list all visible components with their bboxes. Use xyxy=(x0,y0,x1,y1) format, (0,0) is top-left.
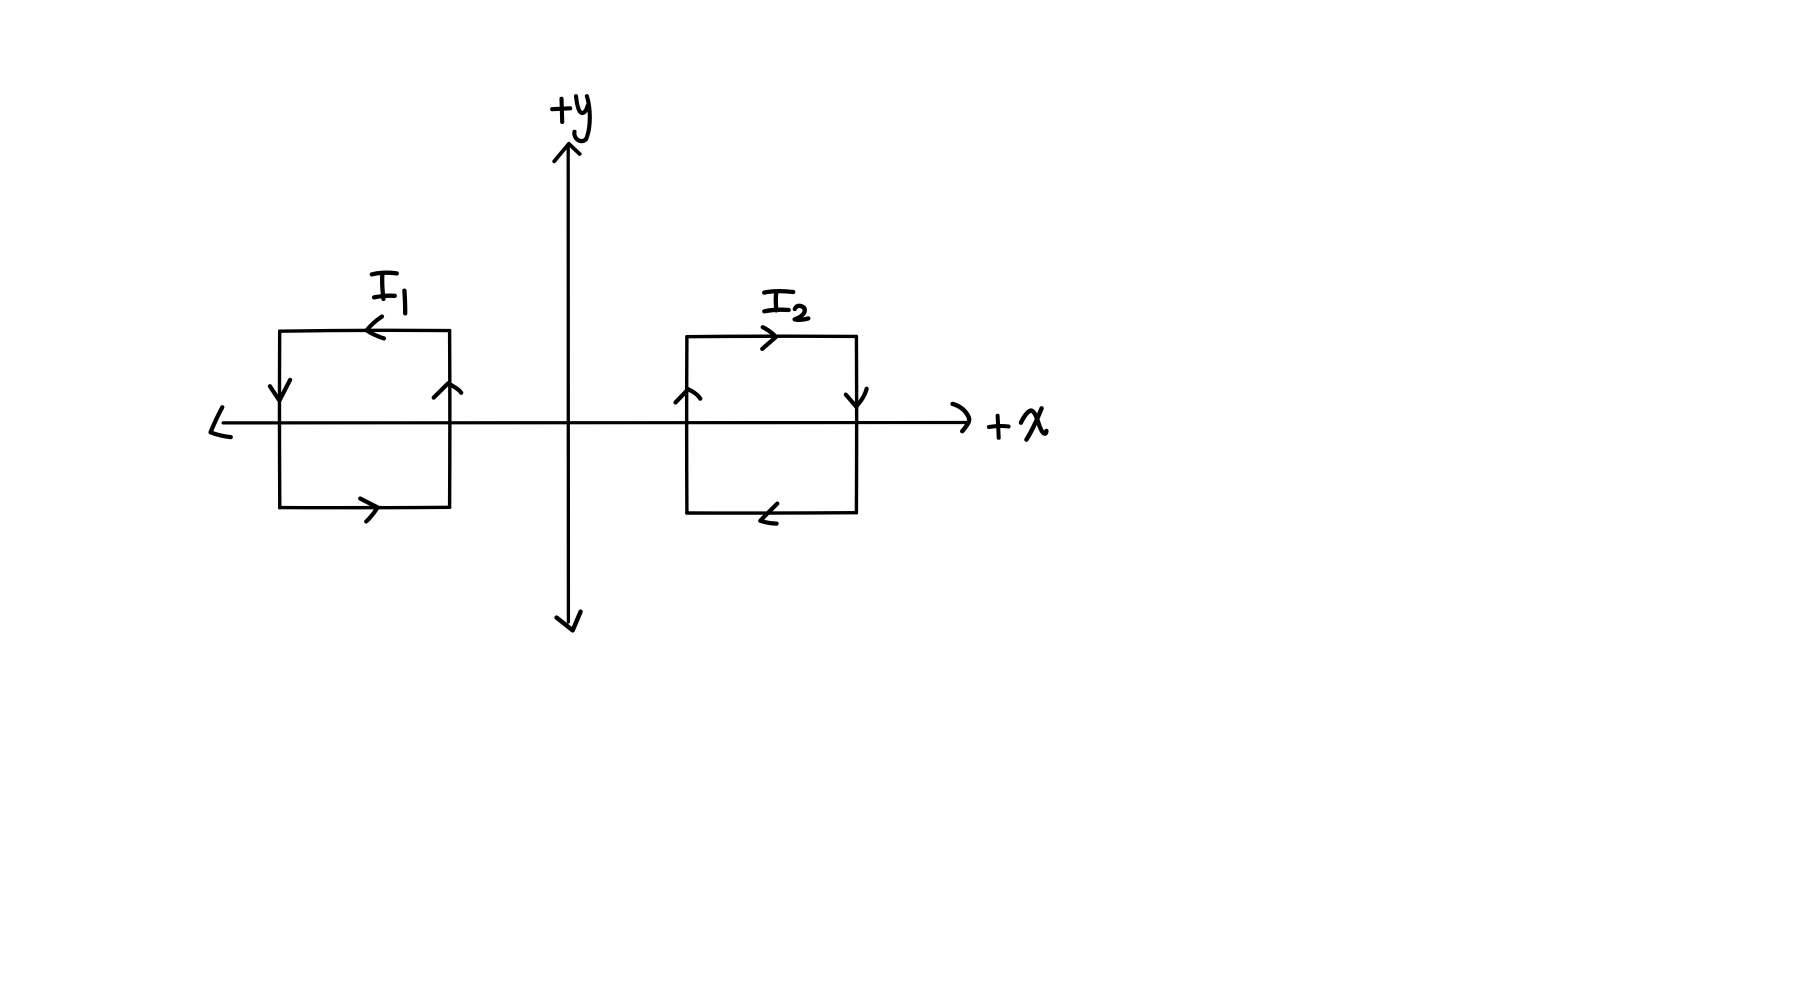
loop I2 top arrow (current right) xyxy=(762,327,776,349)
loop I2 right arrow (current down) xyxy=(846,389,867,407)
x-axis left arrowhead xyxy=(211,407,231,437)
loop I2 top wire xyxy=(687,335,857,339)
y-axis bottom arrowhead xyxy=(557,612,581,631)
y-axis top arrowhead xyxy=(554,144,580,162)
loop I2 bottom arrow (current left) xyxy=(760,504,777,524)
label I2 xyxy=(764,291,808,320)
loop I1 top arrow (current left) xyxy=(367,317,384,339)
loop I1 top wire xyxy=(280,329,450,333)
label I1 xyxy=(372,273,405,314)
loop I1 right arrow (current up) xyxy=(434,383,462,397)
loop I2 left wire xyxy=(685,337,689,513)
loop I2 right wire xyxy=(855,336,859,512)
x-axis xyxy=(223,421,966,425)
label +y xyxy=(552,96,590,141)
x-axis right arrowhead xyxy=(953,404,970,431)
loop I1 left arrow (current down) xyxy=(270,380,290,401)
y-axis xyxy=(566,146,570,622)
loop I1 left wire xyxy=(278,331,282,507)
loop I2 bottom wire xyxy=(687,511,857,515)
label +x xyxy=(989,408,1047,439)
loop I1 right wire xyxy=(448,331,452,508)
loop I1 bottom arrow (current right) xyxy=(360,499,377,522)
loop I1 bottom wire xyxy=(280,506,450,510)
loop I2 left arrow (current up) xyxy=(676,389,701,402)
